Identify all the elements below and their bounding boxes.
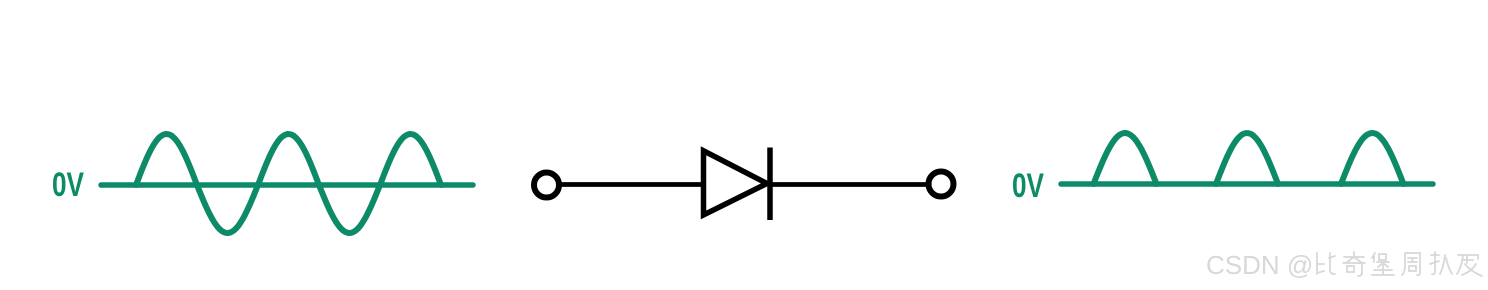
- diode D1 cathode bar: [767, 148, 773, 221]
- diode D1 triangle (anode): [704, 151, 768, 215]
- input zero-volt reference line: [101, 182, 473, 188]
- output rectified hump 2: [1216, 133, 1278, 184]
- terminal (right, cathode): [929, 172, 954, 197]
- output rectified hump 1: [1094, 133, 1157, 184]
- output rectified hump 3: [1341, 133, 1404, 184]
- output zero-volt reference line: [1061, 181, 1433, 187]
- watermark glyph 堡: [1372, 253, 1394, 275]
- watermark glyph 奇: [1343, 252, 1365, 276]
- watermark glyph 周: [1402, 253, 1420, 275]
- watermark glyph 比: [1317, 253, 1335, 274]
- svg-text:0V: 0V: [1012, 167, 1044, 205]
- svg-text:0V: 0V: [52, 166, 84, 204]
- cathode wire: [770, 182, 928, 187]
- terminal (left, anode): [534, 173, 559, 198]
- watermark glyph 扒: [1430, 252, 1452, 274]
- anode wire: [560, 182, 703, 187]
- input AC sine waveform: [136, 134, 441, 233]
- svg-text:CSDN @: CSDN @: [1206, 250, 1313, 280]
- watermark glyph 皮: [1457, 255, 1482, 276]
